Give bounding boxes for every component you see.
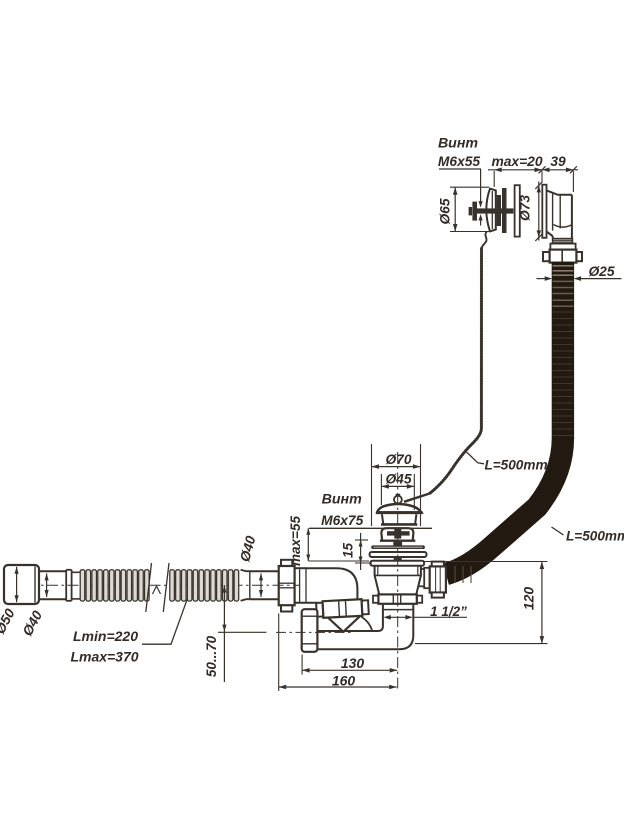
trap inlet nut	[281, 560, 292, 566]
svg-text:Винт: Винт	[322, 491, 362, 507]
overflow elbow flange plate	[542, 185, 546, 238]
stem 2	[394, 557, 402, 561]
dim 160	[278, 614, 280, 692]
svg-text:max=55: max=55	[288, 516, 303, 566]
svg-text:Ø73: Ø73	[518, 195, 533, 221]
trap inlet elbow	[306, 568, 357, 601]
corrugated pipe centerline	[6, 584, 300, 586]
corrugated pipe cuff Ø50	[4, 565, 39, 604]
svg-text:Lmin=220: Lmin=220	[73, 628, 138, 644]
leader Lmin/Lmax	[142, 600, 187, 644]
overflow elbow body	[547, 190, 572, 194]
svg-text:Ø45: Ø45	[385, 472, 411, 487]
trap bottom cup	[302, 609, 318, 652]
svg-text:160: 160	[332, 673, 356, 689]
drain plug knob	[396, 494, 401, 497]
svg-text:Ø65: Ø65	[437, 198, 452, 224]
drain tail nut	[373, 596, 378, 603]
drain plug dome	[377, 504, 421, 512]
drain outlet nut	[432, 562, 444, 567]
svg-text:Винт: Винт	[438, 136, 478, 152]
svg-text:Lmax=370: Lmax=370	[70, 649, 138, 665]
dim 120	[424, 561, 547, 563]
svg-text:L=500mm: L=500mm	[566, 529, 624, 544]
dim Ø73	[538, 182, 540, 241]
overflow hose nut	[550, 244, 575, 250]
dim max=55	[309, 560, 369, 562]
dim Ø25	[537, 278, 547, 280]
dim Ø50	[16, 567, 18, 602]
svg-text:1 1/2”: 1 1/2”	[430, 604, 467, 619]
smooth pipe section	[39, 570, 67, 572]
dim 1 1/2 inch	[383, 615, 391, 620]
svg-text:130: 130	[341, 655, 365, 671]
leader L=500mm (hose)	[552, 527, 564, 535]
pipe break symbol	[146, 563, 152, 612]
chain hook	[482, 232, 487, 249]
svg-text:39: 39	[550, 154, 566, 169]
svg-text:15: 15	[340, 543, 355, 559]
overflow flexible hose L=500mm	[446, 262, 563, 574]
drain body	[375, 566, 421, 576]
screw M6x75 on plug seat	[394, 527, 401, 538]
drain plug base	[382, 514, 417, 524]
trap union nut (diagonal)	[316, 599, 369, 618]
overflow bell of drain	[381, 528, 413, 540]
svg-text:М6х75: М6х75	[321, 513, 364, 528]
dim Ø40 left	[46, 573, 48, 597]
corrugation end collar	[241, 570, 250, 601]
svg-text:M6x55: M6x55	[438, 154, 481, 169]
dim 15	[355, 539, 368, 541]
dim Ø65	[450, 186, 489, 188]
dim 130	[301, 655, 303, 675]
leader L=500mm (chain)	[467, 452, 485, 464]
bell stem	[393, 542, 402, 547]
svg-text:120: 120	[521, 587, 537, 611]
drain flange plate 1 (thin)	[371, 545, 425, 549]
overflow screw M6x55	[469, 207, 472, 215]
svg-text:max=20: max=20	[491, 154, 542, 169]
drain flange plate 2	[370, 552, 427, 557]
drain tail pipe	[318, 603, 383, 631]
dim Ø40 right	[260, 573, 262, 597]
drain vertical centerline	[397, 452, 399, 692]
svg-text:Ø70: Ø70	[385, 452, 411, 467]
svg-text:50...70: 50...70	[204, 635, 219, 677]
tub wall section bars	[497, 195, 501, 226]
overflow gasket plate	[515, 185, 520, 236]
hose ribs texture	[553, 265, 574, 267]
drain side outlet stub	[421, 568, 424, 570]
svg-text:L=500mm: L=500mm	[484, 458, 547, 473]
smooth end section	[250, 570, 279, 572]
chain end link to plug	[404, 493, 430, 501]
trap horizontal centerline	[276, 631, 352, 633]
drain body taper	[375, 575, 421, 594]
corrugation section B	[170, 570, 175, 601]
svg-text:Ø25: Ø25	[588, 264, 614, 279]
trap cone (funnel)	[324, 612, 362, 632]
drain gasket plate	[370, 561, 424, 566]
dim 50...70	[223, 585, 225, 682]
trap bottom pipe joins	[362, 617, 373, 631]
corrugation section A	[65, 570, 67, 601]
overflow hose threads	[553, 239, 573, 244]
overflow faceplate (cap)	[486, 189, 496, 232]
chain (beaded) L=500mm	[430, 249, 482, 494]
